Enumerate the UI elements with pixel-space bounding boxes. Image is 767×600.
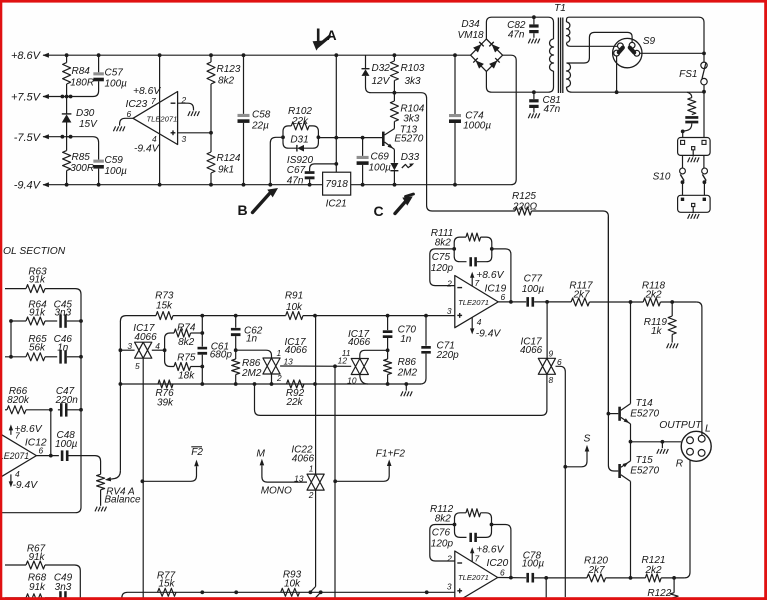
svg-text:M: M: [256, 449, 265, 460]
svg-text:4066: 4066: [348, 337, 371, 348]
svg-text:22k: 22k: [291, 116, 309, 127]
svg-text:6: 6: [557, 357, 562, 367]
svg-text:C58: C58: [252, 109, 271, 120]
svg-text:1: 1: [277, 348, 282, 358]
svg-text:100µ: 100µ: [369, 163, 392, 174]
svg-text:+8.6V: +8.6V: [11, 50, 42, 62]
svg-text:820k: 820k: [7, 395, 30, 406]
svg-text:100µ: 100µ: [105, 78, 128, 89]
svg-text:4: 4: [152, 134, 157, 144]
svg-text:220p: 220p: [436, 350, 460, 361]
svg-text:3: 3: [447, 306, 452, 316]
svg-text:C: C: [374, 203, 384, 219]
svg-text:E5270: E5270: [630, 408, 659, 419]
svg-text:100µ: 100µ: [105, 166, 128, 177]
svg-text:S: S: [584, 433, 591, 444]
svg-text:OUTPUT: OUTPUT: [659, 420, 702, 431]
svg-text:6: 6: [500, 568, 505, 578]
svg-text:+8.6V: +8.6V: [476, 270, 504, 281]
svg-text:C59: C59: [105, 155, 124, 166]
svg-text:4066: 4066: [134, 332, 157, 343]
svg-text:18k: 18k: [178, 370, 195, 381]
svg-text:R123: R123: [217, 64, 241, 75]
svg-text:IC12: IC12: [25, 438, 47, 449]
svg-text:2k2: 2k2: [644, 565, 662, 576]
svg-text:D34: D34: [461, 19, 480, 30]
svg-text:220Ω: 220Ω: [512, 201, 538, 212]
svg-text:56k: 56k: [29, 343, 46, 354]
svg-text:R102: R102: [288, 106, 312, 117]
svg-text:8: 8: [549, 375, 554, 385]
svg-text:F1+F2: F1+F2: [376, 449, 406, 460]
svg-text:L: L: [705, 424, 711, 435]
svg-text:2k7: 2k7: [587, 565, 605, 576]
svg-text:47n: 47n: [508, 29, 525, 40]
svg-text:TLE2071: TLE2071: [0, 451, 29, 461]
svg-text:6: 6: [127, 109, 132, 119]
svg-text:1n: 1n: [246, 334, 258, 345]
svg-text:1k: 1k: [651, 326, 663, 337]
svg-text:-9.4V: -9.4V: [476, 329, 502, 340]
svg-text:10k: 10k: [286, 302, 303, 313]
svg-text:7: 7: [15, 431, 20, 441]
svg-text:3n3: 3n3: [55, 582, 72, 593]
svg-text:1: 1: [309, 464, 314, 474]
svg-text:VM18: VM18: [457, 30, 484, 41]
svg-text:3k3: 3k3: [405, 76, 422, 87]
svg-text:5: 5: [135, 361, 140, 371]
svg-text:120p: 120p: [431, 538, 454, 549]
svg-text:3k3: 3k3: [403, 114, 420, 125]
svg-text:2: 2: [308, 490, 314, 500]
svg-text:R84: R84: [72, 66, 91, 77]
svg-text:10k: 10k: [284, 578, 301, 589]
svg-text:-9.4V: -9.4V: [13, 480, 39, 491]
svg-text:4066: 4066: [520, 345, 543, 356]
svg-text:4: 4: [477, 317, 482, 327]
svg-text:8k2: 8k2: [435, 513, 452, 524]
svg-text:R: R: [676, 459, 683, 470]
svg-text:C75: C75: [432, 252, 451, 263]
svg-text:+8.6V: +8.6V: [133, 86, 161, 97]
svg-text:100µ: 100µ: [522, 558, 545, 569]
svg-text:C77: C77: [524, 274, 543, 285]
svg-text:12V: 12V: [372, 76, 391, 87]
svg-text:7918: 7918: [325, 179, 348, 190]
svg-text:15k: 15k: [158, 579, 175, 590]
svg-text:47n: 47n: [544, 104, 561, 115]
svg-text:8k2: 8k2: [435, 238, 452, 249]
svg-text:D31: D31: [290, 134, 308, 145]
svg-text:-7.5V: -7.5V: [14, 132, 42, 144]
svg-text:C67: C67: [287, 165, 306, 176]
svg-text:C76: C76: [432, 528, 451, 539]
svg-text:T14: T14: [636, 398, 654, 409]
svg-text:MONO: MONO: [261, 486, 292, 497]
svg-text:3n3: 3n3: [54, 308, 71, 319]
svg-text:E5270: E5270: [630, 466, 659, 477]
svg-text:T1: T1: [554, 3, 566, 14]
svg-text:91k: 91k: [29, 275, 46, 286]
svg-text:13: 13: [284, 357, 294, 367]
svg-text:-9.4V: -9.4V: [14, 180, 42, 192]
svg-text:OL SECTION: OL SECTION: [3, 246, 66, 257]
svg-text:T15: T15: [636, 455, 654, 466]
svg-text:91k: 91k: [29, 308, 46, 319]
svg-text:91k: 91k: [29, 582, 46, 593]
svg-text:3: 3: [447, 582, 452, 592]
svg-text:100µ: 100µ: [55, 439, 78, 450]
svg-text:91k: 91k: [28, 552, 45, 563]
svg-text:2k7: 2k7: [572, 289, 590, 300]
svg-text:R86: R86: [398, 357, 417, 368]
svg-text:TLE2071: TLE2071: [147, 114, 178, 123]
svg-text:3: 3: [182, 134, 187, 144]
svg-text:2k2: 2k2: [644, 289, 662, 300]
svg-text:2: 2: [446, 554, 452, 564]
svg-text:15k: 15k: [156, 301, 173, 312]
svg-text:B: B: [238, 202, 248, 218]
svg-text:+8.6V: +8.6V: [476, 545, 504, 556]
svg-text:3: 3: [127, 341, 132, 351]
svg-text:15V: 15V: [79, 119, 98, 130]
svg-text:R85: R85: [72, 152, 91, 163]
svg-text:2M2: 2M2: [397, 367, 418, 378]
svg-text:4: 4: [155, 341, 160, 351]
svg-text:2: 2: [276, 373, 282, 383]
svg-text:39k: 39k: [157, 397, 174, 408]
svg-text:180R: 180R: [70, 78, 94, 89]
svg-text:8k2: 8k2: [218, 76, 235, 87]
svg-text:R103: R103: [401, 63, 425, 74]
svg-text:TLE2071: TLE2071: [458, 298, 489, 307]
svg-text:120p: 120p: [431, 263, 454, 274]
svg-text:FS1: FS1: [679, 69, 697, 80]
svg-text:IC20: IC20: [487, 558, 509, 569]
svg-text:R91: R91: [285, 291, 303, 302]
svg-text:4066: 4066: [285, 345, 308, 356]
svg-text:IC21: IC21: [326, 199, 347, 210]
svg-text:A: A: [327, 27, 337, 43]
svg-text:R124: R124: [217, 153, 241, 164]
svg-text:+7.5V: +7.5V: [11, 92, 42, 104]
svg-text:S9: S9: [643, 36, 656, 47]
svg-text:300R: 300R: [70, 163, 94, 174]
svg-text:-9.4V: -9.4V: [134, 144, 160, 155]
svg-text:IC19: IC19: [485, 284, 507, 295]
svg-text:100µ: 100µ: [522, 284, 545, 295]
svg-text:IS920: IS920: [287, 155, 314, 166]
svg-text:6: 6: [39, 446, 44, 456]
svg-text:680p: 680p: [210, 350, 233, 361]
svg-text:Balance: Balance: [104, 494, 141, 505]
svg-text:2: 2: [446, 279, 452, 289]
svg-text:9k1: 9k1: [218, 165, 234, 176]
svg-text:D30: D30: [76, 108, 95, 119]
svg-text:D32: D32: [372, 63, 391, 74]
svg-text:D33: D33: [401, 152, 420, 163]
svg-text:9: 9: [549, 349, 554, 359]
svg-text:4066: 4066: [292, 453, 315, 464]
svg-text:F2: F2: [191, 447, 203, 458]
svg-text:7: 7: [151, 96, 156, 106]
svg-text:TLE2071: TLE2071: [458, 573, 489, 582]
svg-text:22k: 22k: [285, 397, 303, 408]
svg-text:47n: 47n: [287, 176, 304, 187]
svg-text:10: 10: [347, 375, 357, 385]
svg-text:1n: 1n: [57, 343, 69, 354]
svg-text:8k2: 8k2: [178, 337, 195, 348]
svg-text:R74: R74: [177, 323, 196, 334]
svg-text:4: 4: [15, 469, 20, 479]
svg-text:E5270: E5270: [394, 133, 423, 144]
svg-text:C57: C57: [105, 67, 124, 78]
svg-text:R75: R75: [177, 353, 196, 364]
svg-text:C69: C69: [371, 152, 390, 163]
svg-text:1n: 1n: [400, 334, 412, 345]
svg-text:22µ: 22µ: [251, 120, 269, 131]
svg-text:S10: S10: [653, 171, 671, 182]
svg-text:1000µ: 1000µ: [463, 120, 491, 131]
svg-text:11: 11: [342, 348, 351, 358]
svg-text:220n: 220n: [55, 395, 79, 406]
svg-text:2M2: 2M2: [241, 368, 262, 379]
